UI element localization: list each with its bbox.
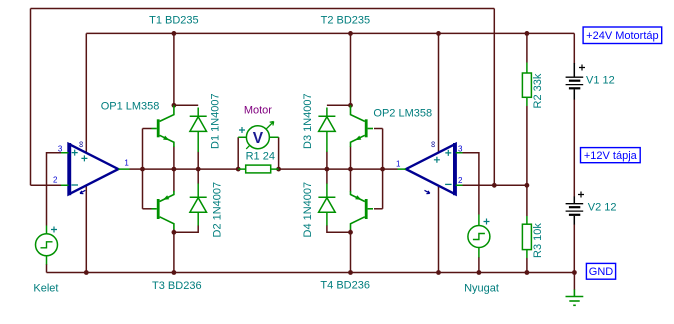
node gnd T4 — [348, 270, 353, 275]
wire V2 to ground rail — [573, 224, 575, 273]
node feedback pin2 — [492, 183, 497, 188]
svg-text:T3 BD236: T3 BD236 — [152, 280, 202, 292]
wire T4 collector stub — [350, 229, 352, 232]
net box +24V Motortap — [583, 27, 662, 44]
node mid rail T1 T3 — [172, 167, 177, 172]
wire D3 bottom — [326, 152, 328, 170]
node mid rail OP2 out — [380, 167, 385, 172]
wire T2 base stub — [374, 128, 383, 130]
wire T2 collector drop — [350, 33, 352, 105]
node rail R2 — [525, 31, 530, 36]
svg-text:GND: GND — [589, 266, 614, 278]
wire ground rail — [47, 272, 575, 274]
svg-text:R2 33k: R2 33k — [532, 73, 544, 108]
wire mid rail left — [143, 168, 239, 170]
svg-text:3: 3 — [58, 145, 63, 154]
node gnd OP2 V- — [436, 270, 441, 275]
svg-text:Nyugat: Nyugat — [464, 282, 499, 294]
wire Kelet bottom — [46, 264, 48, 273]
op-amp OP2 — [398, 141, 463, 195]
svg-text:3: 3 — [458, 145, 463, 154]
diode D4 — [318, 184, 335, 226]
wire +24V rail — [86, 32, 574, 34]
node mid rail T2 T4 — [348, 167, 353, 172]
node mid rail D3 D4 — [325, 167, 330, 172]
svg-text:∞: ∞ — [428, 141, 438, 147]
wire OP1 pin3 corner to Kelet — [47, 153, 62, 226]
svg-text:1: 1 — [396, 159, 401, 168]
op-amp OP1 — [61, 141, 130, 195]
wire R3 bottom — [526, 258, 528, 273]
wire base bus right vertical — [382, 129, 384, 209]
wire R2 top — [526, 33, 528, 62]
wire V1 to V2 link — [573, 99, 575, 197]
wire OP2 V- supply — [438, 186, 440, 273]
wire OP2 pin3 corner to Nyugat — [463, 153, 479, 215]
svg-text:Motor: Motor — [244, 105, 272, 117]
wire feedback right vertical — [493, 9, 495, 186]
node gnd R3 — [525, 270, 530, 275]
svg-text:D4 1N4007: D4 1N4007 — [302, 182, 314, 238]
wire Nyugat bottom — [478, 257, 480, 273]
wire T3 collector stub — [173, 229, 175, 232]
svg-text:V1 12: V1 12 — [586, 75, 615, 87]
svg-text:2: 2 — [458, 176, 463, 185]
wire ground stub — [573, 273, 575, 291]
node divider R2 R3 — [525, 183, 530, 188]
wire R3 top — [526, 185, 528, 216]
wire OP1 V- supply — [85, 185, 87, 272]
node R1 right — [276, 167, 281, 172]
svg-text:V: V — [253, 130, 264, 147]
svg-text:2: 2 — [53, 176, 58, 185]
node mid rail OP1 out — [140, 167, 145, 172]
source Kelet generator — [36, 226, 58, 265]
svg-text:V2 12: V2 12 — [588, 201, 617, 213]
wire T3 emitter to rail — [173, 169, 175, 191]
wire T1 emitter to rail — [173, 147, 175, 170]
node gnd Nyugat — [477, 270, 482, 275]
resistor R2 — [522, 63, 531, 107]
wire OP2 pin2 to divider — [463, 184, 527, 186]
svg-text:R3 10k: R3 10k — [532, 223, 544, 258]
wire base bus left vertical — [142, 129, 144, 209]
svg-text:+24V Motortáp: +24V Motortáp — [586, 30, 658, 42]
transistor T3 — [152, 191, 174, 230]
wire T3 base stub — [143, 208, 152, 210]
svg-text:T1 BD235: T1 BD235 — [149, 15, 199, 27]
net box GND — [586, 263, 615, 279]
wire OP1 pin2 input — [31, 184, 62, 186]
svg-text:OP1 LM358: OP1 LM358 — [101, 100, 160, 112]
wire node T1 to D1 — [174, 104, 198, 106]
wire mid rail right — [279, 168, 398, 170]
node T1-D1 — [172, 103, 177, 108]
svg-text:D3 1N4007: D3 1N4007 — [302, 93, 314, 149]
wire OP1 output — [130, 168, 143, 170]
wire OP2 V+ supply — [438, 33, 440, 152]
wire T2 emitter to rail — [350, 147, 352, 170]
svg-text:R1 24: R1 24 — [246, 151, 275, 163]
wire meter right drop — [278, 137, 280, 169]
svg-text:+12V tápja: +12V tápja — [584, 150, 638, 162]
node T4 D4 — [348, 230, 353, 235]
battery V1 — [566, 63, 585, 100]
transistor T4 — [351, 191, 374, 230]
node gnd V2 — [572, 270, 577, 275]
svg-text:T4 BD236: T4 BD236 — [320, 280, 370, 292]
wire node T2 to D3 — [327, 104, 351, 106]
wire D4 top — [326, 169, 328, 184]
wire D4 bottom corner — [327, 225, 351, 232]
wire feedback top horizontal — [31, 8, 495, 10]
wire D2 bottom corner — [174, 225, 198, 232]
svg-text:OP2 LM358: OP2 LM358 — [373, 108, 432, 120]
node mid rail D1 D2 — [196, 167, 201, 172]
svg-text:D2 1N4007: D2 1N4007 — [212, 182, 224, 238]
wire T3 to ground rail — [173, 232, 175, 272]
svg-text:D1 1N4007: D1 1N4007 — [210, 93, 222, 149]
svg-text:1: 1 — [124, 159, 129, 168]
diode D1 — [190, 108, 207, 153]
wire OP1 V+ supply — [85, 33, 87, 152]
node rail OP2 V+ — [436, 31, 441, 36]
resistor R1 — [238, 165, 278, 173]
diode D3 — [318, 108, 335, 153]
transistor T1 — [152, 105, 174, 147]
node rail T1 — [172, 31, 177, 36]
wire T1 base stub — [143, 128, 152, 130]
wire D2 top — [197, 169, 199, 184]
node rail T2 — [348, 31, 353, 36]
wire D1 bottom — [197, 152, 199, 170]
svg-text:Kelet: Kelet — [33, 282, 58, 294]
svg-text:∞: ∞ — [77, 141, 87, 147]
resistor R3 — [522, 216, 531, 258]
battery V2 — [566, 192, 584, 225]
wire T4 emitter to rail — [350, 169, 352, 191]
wire T4 base stub — [374, 208, 383, 210]
node gnd T3 — [172, 270, 177, 275]
diode D2 — [190, 184, 207, 226]
wire T4 to ground rail — [350, 232, 352, 272]
wire R2 bottom — [526, 106, 528, 185]
wire meter left drop — [237, 137, 239, 169]
node gnd OP1 V- — [84, 270, 89, 275]
voltmeter motor meter — [238, 122, 278, 149]
ground — [566, 290, 584, 306]
transistor T2 — [351, 105, 374, 147]
node T3 D2 — [172, 230, 177, 235]
source Nyugat generator — [468, 215, 490, 258]
net box +12V tapja — [581, 148, 641, 163]
wire rail corner to V1 — [573, 33, 575, 64]
node T2-D3 — [348, 103, 353, 108]
wire feedback left vertical — [30, 9, 32, 186]
svg-text:T2 BD235: T2 BD235 — [321, 15, 371, 27]
node R1 left — [236, 167, 241, 172]
wire T1 collector drop — [173, 33, 175, 105]
